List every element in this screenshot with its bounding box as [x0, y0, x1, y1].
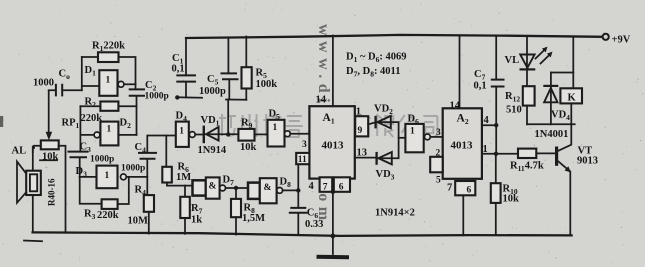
svg-text:3: 3	[436, 128, 441, 138]
pin 4 wire (A2)	[482, 115, 496, 126]
LED arrows	[536, 47, 553, 64]
diode VD4	[543, 73, 558, 125]
svg-text:1N4001: 1N4001	[535, 129, 569, 140]
junction dot D7 out	[234, 186, 238, 190]
svg-text:3: 3	[302, 140, 307, 150]
resistor R3	[80, 177, 129, 209]
inverter D3	[80, 166, 148, 189]
capacitor C2	[129, 84, 145, 135]
svg-text:K: K	[568, 93, 577, 104]
junction dot R11 wire	[494, 152, 498, 156]
flip-flop U A2 4013	[443, 108, 482, 179]
inverter D1	[99, 70, 135, 96]
svg-text:R1220k: R1220k	[92, 41, 125, 54]
pin 13 wire (A1)	[355, 148, 376, 159]
capacitor C6	[289, 190, 308, 234]
svg-text:100k: 100k	[256, 79, 278, 90]
junction dot VD1-R9 node	[226, 132, 230, 136]
terminal +9V circle	[603, 34, 609, 40]
capacitor C7	[491, 36, 505, 126]
pin 6 box (A1)	[334, 177, 350, 192]
junction dot D8 out	[296, 188, 300, 192]
resistor R1	[82, 52, 136, 84]
scan dash below bottom rail	[24, 240, 42, 243]
svg-text:R40-16: R40-16	[47, 178, 57, 206]
svg-text:4: 4	[309, 181, 315, 192]
pin 2 box (A2)	[430, 149, 443, 173]
transistor VT 9013	[555, 124, 571, 235]
wire VD4 top jog	[551, 72, 573, 74]
svg-text:1000p: 1000p	[199, 86, 226, 97]
capacitor C0	[49, 84, 82, 97]
svg-text:0,1: 0,1	[172, 64, 185, 75]
capacitor C1	[176, 38, 196, 97]
svg-text:AL: AL	[12, 146, 27, 157]
svg-text:6: 6	[467, 186, 472, 196]
svg-text:1M: 1M	[176, 172, 191, 183]
svg-text:1000p: 1000p	[90, 155, 114, 165]
pin 6 box (A2)	[455, 181, 475, 235]
inverter D6	[399, 124, 443, 152]
svg-text:R114.7k: R114.7k	[510, 161, 544, 174]
svg-text:1: 1	[107, 125, 112, 135]
scan smudge left edge	[0, 116, 3, 127]
svg-text:+9V: +9V	[612, 35, 631, 46]
svg-text:10k: 10k	[42, 152, 59, 163]
svg-text:220k: 220k	[97, 210, 119, 221]
wire D8 out to pin11	[297, 164, 299, 190]
node A (D1 input junction)	[82, 57, 100, 90]
resistor R9	[238, 129, 267, 141]
svg-text:1: 1	[410, 127, 415, 137]
LED VL	[520, 37, 536, 86]
pin 1 wire (A2)	[482, 144, 518, 155]
watermark red vertical url www.dianlut.com	[315, 24, 332, 226]
svg-text:4: 4	[484, 115, 490, 126]
svg-text:9: 9	[358, 126, 363, 136]
capacitor C4	[138, 136, 157, 196]
svg-text:1,5M: 1,5M	[242, 213, 265, 224]
svg-text:1: 1	[179, 127, 184, 137]
ground	[317, 234, 350, 258]
svg-text:1: 1	[106, 76, 111, 86]
svg-text:510: 510	[506, 105, 522, 116]
flip-flop U A1 4013	[309, 106, 354, 178]
junction dot pin7	[331, 190, 336, 195]
nand gate D7	[206, 177, 248, 198]
junction dot pin4/C7	[494, 123, 498, 127]
resistor R5	[242, 37, 252, 100]
resistor R11	[518, 149, 555, 158]
diode VD3	[377, 152, 399, 165]
svg-text:6: 6	[339, 183, 344, 193]
svg-text:1N914×2: 1N914×2	[375, 208, 415, 219]
svg-text:1: 1	[105, 171, 110, 181]
wire A1 pin14 to rail	[332, 36, 334, 107]
svg-text:1000p: 1000p	[145, 92, 169, 102]
svg-text:7: 7	[447, 183, 452, 194]
wire relay bottom node	[527, 123, 575, 125]
svg-text:&: &	[209, 182, 217, 192]
node wire C1-C5-R5 common	[177, 97, 247, 99]
inverter D4	[148, 122, 203, 147]
line under 10k	[40, 159, 57, 161]
svg-text:1000p: 1000p	[121, 164, 145, 174]
svg-text:7: 7	[323, 183, 328, 193]
relay K	[560, 37, 582, 125]
svg-text:4013: 4013	[322, 140, 345, 152]
speaker AL	[17, 147, 41, 233]
watermark gray chinese pseudo-glyphs	[219, 114, 437, 137]
pin 7 box (A1)	[320, 177, 333, 192]
svg-text:1N914: 1N914	[198, 145, 227, 156]
svg-text:0.33: 0.33	[305, 219, 323, 230]
nand gate D8	[260, 178, 299, 203]
pin 11 box (A1)	[296, 153, 309, 165]
junction dot node	[175, 95, 179, 99]
top rail +9V	[186, 35, 602, 38]
resistor R6	[162, 136, 192, 186]
resistor R12	[523, 86, 535, 124]
diode VD1	[204, 126, 239, 144]
svg-text:10M: 10M	[128, 216, 149, 227]
svg-text:2: 2	[436, 149, 441, 159]
wire C7 node down through R11 wire	[495, 125, 497, 183]
svg-text:9013: 9013	[577, 156, 598, 167]
svg-text:4013: 4013	[451, 140, 474, 152]
wire pin7 to ground rail	[332, 192, 334, 236]
resistor R10	[491, 183, 501, 235]
svg-text:1: 1	[483, 144, 488, 155]
bottom rail	[33, 232, 572, 236]
svg-text:5: 5	[436, 176, 441, 186]
inverter D5	[268, 120, 310, 147]
pin 9 box (A1)	[355, 116, 375, 136]
resistor R7	[180, 186, 190, 234]
diode VD2	[376, 116, 399, 158]
nand gate D8 input stub	[248, 183, 260, 199]
inverter D2 (mirrored)	[80, 106, 136, 150]
resistor R4	[144, 195, 154, 234]
svg-text:10k: 10k	[503, 194, 520, 205]
svg-text:220k: 220k	[81, 113, 103, 124]
svg-text:VL: VL	[505, 55, 520, 66]
svg-text:1k: 1k	[191, 215, 202, 226]
svg-text:11: 11	[298, 155, 307, 165]
wire A2 pin14 to rail	[459, 36, 461, 109]
resistor R8	[231, 188, 241, 235]
svg-text:1000: 1000	[33, 78, 54, 89]
svg-text:13: 13	[357, 148, 368, 159]
resistor R2	[80, 102, 136, 111]
potentiometer RP1	[33, 91, 66, 233]
nand gate D7 input stub	[193, 180, 206, 195]
svg-text:14: 14	[316, 95, 327, 106]
capacitor C3	[68, 152, 89, 177]
svg-text:&: &	[264, 183, 272, 193]
capacitor C5	[221, 38, 239, 135]
svg-text:10k: 10k	[240, 142, 257, 153]
svg-text:14: 14	[450, 101, 461, 112]
svg-text:0,1: 0,1	[474, 81, 487, 92]
svg-text:1: 1	[273, 123, 278, 133]
